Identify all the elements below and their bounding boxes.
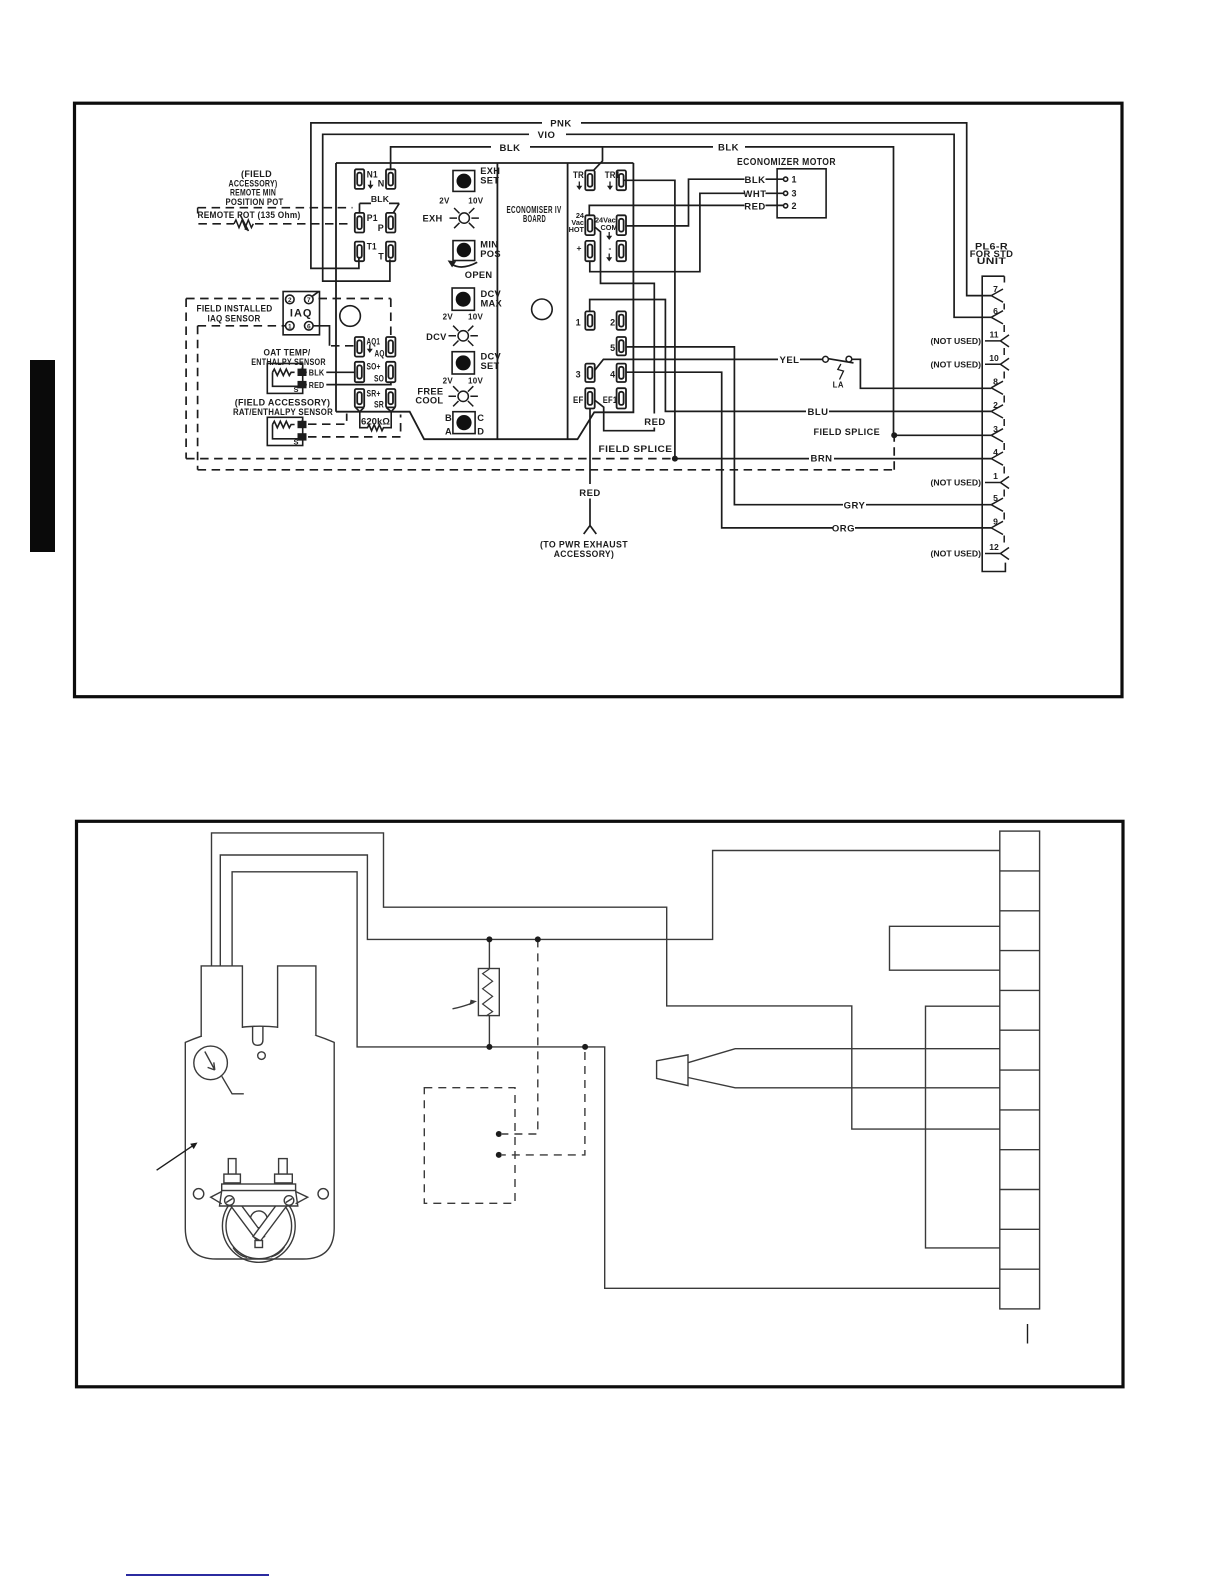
svg-text:RAT/ENTHALPY SENSOR: RAT/ENTHALPY SENSOR	[233, 407, 333, 417]
svg-text:SO+: SO+	[367, 361, 381, 371]
svg-text:BLK: BLK	[371, 194, 390, 204]
svg-text:ECONOMIZER MOTOR: ECONOMIZER MOTOR	[737, 157, 836, 168]
svg-text:OAT TEMP/: OAT TEMP/	[264, 348, 311, 358]
svg-text:PNK: PNK	[550, 119, 572, 130]
svg-text:2V: 2V	[439, 197, 450, 206]
svg-text:+: +	[577, 243, 582, 253]
svg-text:7: 7	[993, 284, 998, 294]
svg-text:7: 7	[307, 297, 311, 304]
svg-text:IAQ: IAQ	[290, 308, 313, 320]
svg-text:BRN: BRN	[810, 454, 832, 465]
svg-text:8: 8	[993, 376, 998, 386]
svg-text:1: 1	[288, 323, 292, 330]
svg-text:2: 2	[993, 400, 998, 410]
svg-text:4: 4	[610, 370, 615, 380]
svg-text:4: 4	[993, 447, 998, 457]
svg-text:AQ1: AQ1	[367, 337, 381, 347]
svg-text:POS: POS	[480, 249, 501, 259]
svg-text:T: T	[378, 251, 384, 261]
svg-text:AQ: AQ	[375, 349, 385, 359]
svg-text:6: 6	[307, 323, 311, 330]
svg-text:2V: 2V	[443, 376, 454, 385]
svg-text:SR+: SR+	[367, 389, 381, 399]
svg-text:(TO PWR EXHAUST: (TO PWR EXHAUST	[540, 540, 628, 550]
svg-text:N: N	[378, 179, 385, 189]
svg-text:EF1: EF1	[603, 395, 618, 405]
svg-text:2: 2	[792, 201, 797, 211]
svg-text:SR: SR	[374, 400, 384, 410]
svg-text:HOT: HOT	[569, 225, 585, 234]
svg-text:MAX: MAX	[481, 299, 503, 309]
svg-text:RED: RED	[579, 488, 601, 499]
svg-text:TR: TR	[573, 170, 584, 180]
svg-text:WHT: WHT	[743, 189, 766, 200]
svg-text:FIELD INSTALLED: FIELD INSTALLED	[197, 304, 273, 314]
svg-text:10V: 10V	[468, 376, 483, 385]
svg-text:10: 10	[989, 353, 999, 363]
svg-text:BLK: BLK	[309, 367, 325, 377]
svg-text:C: C	[477, 413, 484, 423]
svg-text:RED: RED	[309, 380, 325, 390]
svg-text:-: -	[609, 243, 612, 253]
svg-text:1: 1	[993, 471, 998, 481]
svg-text:+: +	[300, 366, 304, 373]
svg-text:YEL: YEL	[780, 355, 800, 366]
svg-text:DCV: DCV	[426, 332, 447, 342]
svg-text:BLK: BLK	[744, 175, 765, 186]
svg-text:5: 5	[610, 343, 615, 353]
svg-text:COM: COM	[601, 223, 618, 232]
svg-text:TR1: TR1	[605, 170, 621, 180]
svg-text:2: 2	[288, 297, 292, 304]
svg-text:6: 6	[993, 306, 998, 316]
svg-text:VIO: VIO	[538, 130, 556, 141]
svg-text:UNIT: UNIT	[977, 256, 1007, 266]
svg-text:SET: SET	[480, 175, 499, 185]
svg-text:BLK: BLK	[499, 143, 520, 154]
svg-text:620kΩ: 620kΩ	[361, 417, 390, 427]
svg-text:3: 3	[792, 189, 797, 199]
svg-text:LA: LA	[833, 380, 844, 389]
svg-text:BOARD: BOARD	[523, 214, 546, 225]
svg-text:REMOTE POT (135 Ohm): REMOTE POT (135 Ohm)	[198, 210, 301, 220]
svg-text:9: 9	[993, 516, 998, 526]
svg-text:N1: N1	[367, 169, 378, 179]
svg-text:ORG: ORG	[832, 524, 855, 535]
svg-text:GRY: GRY	[844, 500, 866, 511]
svg-text:3: 3	[576, 370, 581, 380]
svg-text:OPEN: OPEN	[465, 270, 493, 280]
svg-text:POSITION POT: POSITION POT	[226, 197, 284, 207]
svg-text:2: 2	[610, 317, 615, 327]
svg-text:T1: T1	[367, 242, 377, 252]
svg-text:(NOT USED): (NOT USED)	[931, 549, 982, 559]
svg-text:SO: SO	[374, 373, 384, 383]
svg-text:P1: P1	[367, 213, 378, 223]
svg-text:1: 1	[792, 175, 797, 185]
svg-text:ENTHALPY SENSOR: ENTHALPY SENSOR	[251, 357, 326, 367]
svg-text:B: B	[445, 413, 452, 423]
svg-text:COOL: COOL	[415, 396, 443, 406]
svg-text:5: 5	[993, 493, 998, 503]
svg-text:D: D	[477, 426, 484, 436]
svg-text:FIELD SPLICE: FIELD SPLICE	[599, 444, 673, 454]
svg-text:10V: 10V	[468, 313, 483, 322]
svg-text:(NOT USED): (NOT USED)	[931, 359, 982, 369]
svg-text:EXH: EXH	[422, 214, 442, 224]
svg-text:+: +	[300, 418, 304, 425]
svg-text:IAQ SENSOR: IAQ SENSOR	[208, 313, 261, 323]
svg-text:2V: 2V	[443, 313, 454, 322]
svg-text:EF: EF	[573, 395, 584, 405]
svg-text:3: 3	[993, 424, 998, 434]
svg-text:A: A	[445, 426, 452, 436]
svg-text:(NOT USED): (NOT USED)	[931, 478, 982, 488]
svg-text:(NOT USED): (NOT USED)	[931, 336, 982, 346]
svg-text:ACCESSORY): ACCESSORY)	[554, 549, 615, 559]
svg-text:12: 12	[989, 542, 999, 552]
svg-text:1: 1	[576, 317, 581, 327]
svg-text:S: S	[294, 385, 299, 394]
svg-text:RED: RED	[744, 201, 766, 212]
svg-text:P: P	[378, 223, 384, 233]
svg-text:SET: SET	[481, 361, 500, 371]
svg-text:FIELD SPLICE: FIELD SPLICE	[814, 427, 881, 437]
svg-text:(FIELD ACCESSORY): (FIELD ACCESSORY)	[235, 398, 331, 408]
svg-text:S: S	[294, 437, 299, 446]
svg-text:10V: 10V	[468, 197, 483, 206]
svg-text:BLK: BLK	[718, 143, 739, 154]
svg-text:BLU: BLU	[807, 407, 828, 418]
svg-text:11: 11	[989, 329, 998, 339]
svg-text:RED: RED	[644, 417, 666, 428]
